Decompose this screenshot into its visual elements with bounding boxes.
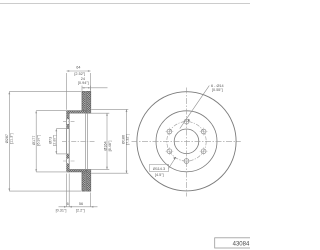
- svg-text:Ø164: Ø164: [104, 141, 108, 150]
- outboard plate top (hatched): [82, 91, 85, 110]
- dimension 56 bottom: [91, 193, 94, 208]
- bolt hole lower-right: [200, 147, 208, 155]
- dimension 64 top: [67, 70, 91, 110]
- leader D114.3 bolt circle: [150, 157, 176, 177]
- dimension D177: [35, 111, 66, 172]
- outboard plate bottom (hatched): [82, 172, 85, 191]
- svg-text:[7.32"]: [7.32"]: [125, 134, 129, 145]
- dimension 24: [82, 86, 108, 91]
- svg-text:Ø114.3: Ø114.3: [153, 167, 165, 171]
- inboard plate top (hatched): [87, 91, 91, 113]
- hat wall band top (hatched): [68, 111, 87, 114]
- svg-text:[6.46"]: [6.46"]: [108, 141, 112, 152]
- bolt hole top: [183, 118, 191, 126]
- title box: [215, 238, 253, 248]
- hat wall band bottom (hatched): [68, 169, 87, 172]
- bolt hole upper-left: [166, 128, 174, 136]
- leader 6-D14: [180, 84, 224, 129]
- dimension D186: [91, 109, 128, 173]
- frame top border: [0, 3, 250, 5]
- section axis centerline: [62, 140, 95, 142]
- svg-text:[11.3"]: [11.3"]: [10, 133, 14, 144]
- mounting flange bar: [67, 111, 70, 172]
- svg-text:[2.2"]: [2.2"]: [76, 208, 85, 212]
- svg-text:[0.94"]: [0.94"]: [78, 81, 89, 85]
- svg-text:56: 56: [79, 202, 83, 206]
- bolt hole centerline upper: [63, 121, 75, 123]
- svg-text:[4.5"]: [4.5"]: [155, 173, 164, 177]
- svg-text:Ø287: Ø287: [5, 134, 9, 143]
- bolt hole bottom: [183, 157, 191, 165]
- svg-text:Ø177: Ø177: [32, 136, 36, 145]
- dimension D73: [55, 129, 66, 154]
- svg-text:[2.52"]: [2.52"]: [74, 72, 85, 76]
- horizontal centerline: [132, 140, 241, 142]
- vertical centerline: [186, 88, 188, 197]
- svg-text:[0.31"]: [0.31"]: [56, 208, 67, 212]
- center bore circle: [174, 129, 199, 154]
- svg-text:6: 6: [67, 202, 69, 206]
- svg-text:[2.87"]: [2.87"]: [53, 135, 57, 146]
- dimension 6 bottom: [59, 174, 98, 208]
- svg-text:43084: 43084: [233, 241, 250, 247]
- bolt circle (dash-dot): [167, 122, 206, 161]
- svg-text:[0.55"]: [0.55"]: [212, 88, 223, 92]
- hat circle: [156, 111, 217, 172]
- dimension D164: [69, 113, 109, 169]
- bolt hole lower-left: [166, 147, 174, 155]
- inboard plate bottom (hatched): [87, 170, 91, 192]
- svg-text:64: 64: [76, 66, 80, 70]
- bolt hole centerline lower: [63, 160, 75, 162]
- svg-text:[6.97"]: [6.97"]: [37, 135, 41, 146]
- dimension D287: [8, 92, 81, 192]
- outer circle: [137, 92, 236, 191]
- hat far-side visible edges: [86, 113, 88, 169]
- bolt hole upper-right: [200, 128, 208, 136]
